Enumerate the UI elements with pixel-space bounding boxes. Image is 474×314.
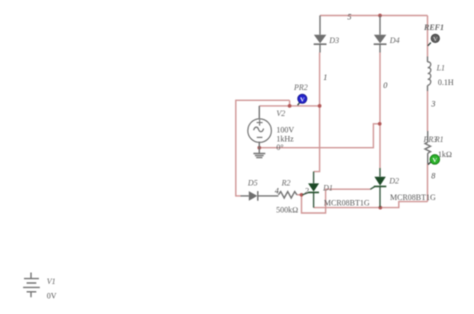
svg-text:1kΩ: 1kΩ xyxy=(438,150,452,159)
svg-text:D1: D1 xyxy=(322,184,333,193)
svg-text:0: 0 xyxy=(383,81,387,90)
svg-text:2: 2 xyxy=(305,186,309,195)
svg-text:PR2: PR2 xyxy=(293,83,308,92)
svg-text:100V: 100V xyxy=(276,126,294,135)
svg-text:V2: V2 xyxy=(276,109,285,118)
svg-text:4: 4 xyxy=(275,186,279,195)
svg-text:D2: D2 xyxy=(388,177,399,186)
svg-text:REF1: REF1 xyxy=(423,23,444,32)
svg-text:V1: V1 xyxy=(47,277,56,286)
svg-text:0.1H: 0.1H xyxy=(438,78,454,87)
svg-text:1: 1 xyxy=(323,73,327,82)
svg-text:V: V xyxy=(433,36,438,43)
svg-text:R2: R2 xyxy=(281,179,291,188)
svg-text:V: V xyxy=(300,96,305,103)
svg-text:0°: 0° xyxy=(276,143,283,152)
svg-text:1kHz: 1kHz xyxy=(276,135,294,144)
svg-text:R1: R1 xyxy=(434,135,444,144)
svg-text:5: 5 xyxy=(347,13,351,22)
svg-text:MCR08BT1G: MCR08BT1G xyxy=(324,198,370,207)
svg-text:D4: D4 xyxy=(389,36,400,45)
svg-text:8: 8 xyxy=(431,172,435,181)
svg-text:L1: L1 xyxy=(436,63,445,72)
svg-text:0V: 0V xyxy=(47,292,57,301)
svg-text:V: V xyxy=(432,157,437,164)
svg-text:MCR08BT1G: MCR08BT1G xyxy=(390,193,436,202)
svg-text:3: 3 xyxy=(430,100,435,109)
svg-text:D3: D3 xyxy=(328,36,339,45)
svg-text:D5: D5 xyxy=(247,179,258,188)
svg-text:500kΩ: 500kΩ xyxy=(276,205,298,214)
